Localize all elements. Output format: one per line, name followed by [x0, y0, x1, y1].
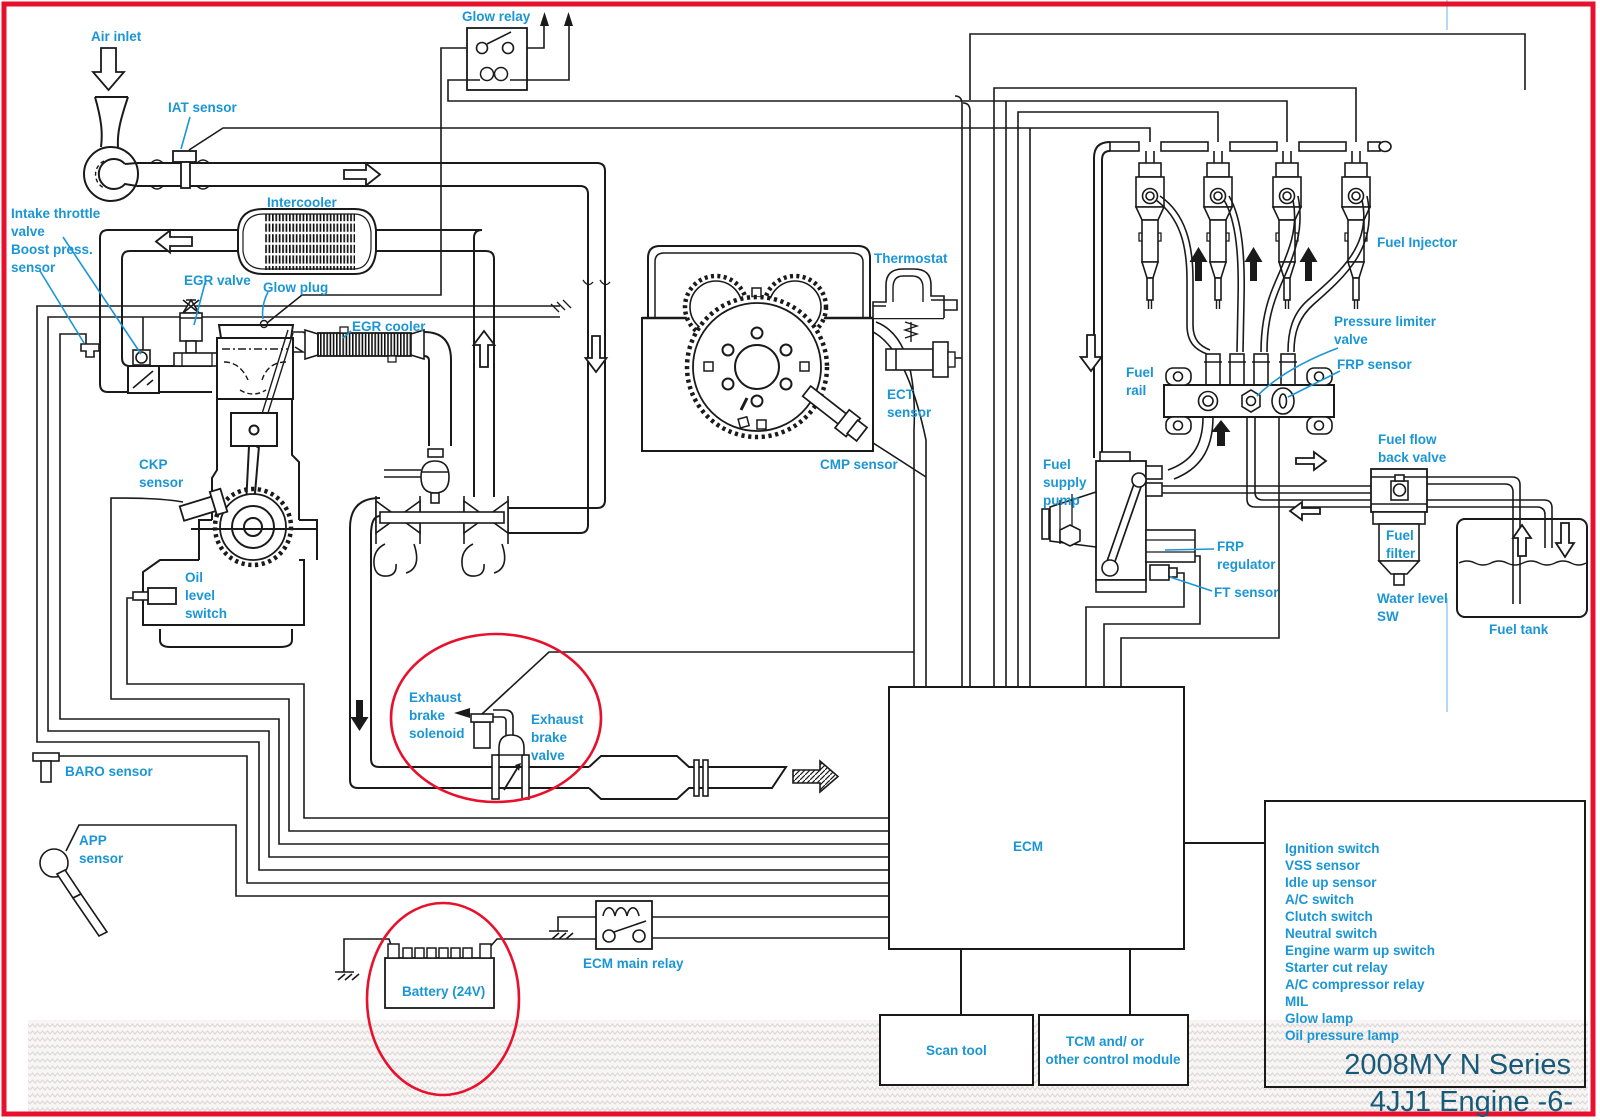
- svg-text:Ignition switch: Ignition switch: [1285, 841, 1380, 856]
- svg-text:valve: valve: [531, 748, 565, 763]
- svg-text:Idle up sensor: Idle up sensor: [1285, 875, 1377, 890]
- svg-text:ECM main relay: ECM main relay: [583, 956, 684, 971]
- svg-text:sensor: sensor: [139, 475, 184, 490]
- svg-text:switch: switch: [185, 606, 227, 621]
- svg-text:Intake throttle: Intake throttle: [11, 206, 101, 221]
- svg-text:ECM: ECM: [1013, 839, 1043, 854]
- svg-text:Boost press.: Boost press.: [11, 242, 93, 257]
- svg-text:Fuel: Fuel: [1126, 365, 1154, 380]
- svg-text:FT sensor: FT sensor: [1214, 585, 1279, 600]
- svg-text:brake: brake: [409, 708, 446, 723]
- svg-text:MIL: MIL: [1285, 994, 1308, 1009]
- svg-text:Starter cut relay: Starter cut relay: [1285, 960, 1388, 975]
- svg-text:Clutch switch: Clutch switch: [1285, 909, 1373, 924]
- svg-text:Engine warm up switch: Engine warm up switch: [1285, 943, 1435, 958]
- svg-text:solenoid: solenoid: [409, 726, 465, 741]
- svg-text:other control module: other control module: [1046, 1052, 1181, 1067]
- svg-text:sensor: sensor: [887, 405, 932, 420]
- svg-text:Oil: Oil: [185, 570, 203, 585]
- svg-text:Fuel flow: Fuel flow: [1378, 432, 1437, 447]
- svg-text:Water level: Water level: [1377, 591, 1448, 606]
- svg-text:valve: valve: [11, 224, 45, 239]
- svg-text:2008MY N Series: 2008MY N Series: [1344, 1049, 1571, 1081]
- svg-text:Battery (24V): Battery (24V): [402, 984, 485, 999]
- svg-text:Thermostat: Thermostat: [874, 251, 948, 266]
- svg-text:supply: supply: [1043, 475, 1087, 490]
- svg-text:APP: APP: [79, 833, 107, 848]
- svg-text:sensor: sensor: [79, 851, 124, 866]
- svg-text:A/C switch: A/C switch: [1285, 892, 1354, 907]
- svg-text:sensor: sensor: [11, 260, 56, 275]
- svg-text:Pressure limiter: Pressure limiter: [1334, 314, 1437, 329]
- svg-text:rail: rail: [1126, 383, 1146, 398]
- svg-text:A/C compressor relay: A/C compressor relay: [1285, 977, 1425, 992]
- svg-text:regulator: regulator: [1217, 557, 1276, 572]
- svg-text:back valve: back valve: [1378, 450, 1447, 465]
- svg-text:pump: pump: [1043, 493, 1080, 508]
- svg-text:CMP sensor: CMP sensor: [820, 457, 899, 472]
- svg-text:EGR cooler: EGR cooler: [352, 319, 426, 334]
- svg-text:Oil pressure lamp: Oil pressure lamp: [1285, 1028, 1399, 1043]
- svg-text:4JJ1 Engine -6-: 4JJ1 Engine -6-: [1370, 1086, 1573, 1118]
- svg-text:Fuel: Fuel: [1043, 457, 1071, 472]
- svg-text:Neutral switch: Neutral switch: [1285, 926, 1377, 941]
- svg-text:EGR valve: EGR valve: [184, 273, 251, 288]
- svg-text:TCM and/ or: TCM and/ or: [1066, 1034, 1145, 1049]
- svg-text:BARO sensor: BARO sensor: [65, 764, 154, 779]
- svg-text:Glow relay: Glow relay: [462, 9, 531, 24]
- svg-text:level: level: [185, 588, 215, 603]
- svg-text:Scan tool: Scan tool: [926, 1043, 987, 1058]
- svg-text:valve: valve: [1334, 332, 1368, 347]
- svg-text:FRP: FRP: [1217, 539, 1244, 554]
- svg-text:Fuel Injector: Fuel Injector: [1377, 235, 1458, 250]
- svg-text:Exhaust: Exhaust: [531, 712, 584, 727]
- svg-text:ECT: ECT: [887, 387, 915, 402]
- svg-text:CKP: CKP: [139, 457, 168, 472]
- svg-text:IAT sensor: IAT sensor: [168, 100, 238, 115]
- svg-text:Glow plug: Glow plug: [263, 280, 328, 295]
- svg-text:Fuel tank: Fuel tank: [1489, 622, 1549, 637]
- svg-text:FRP sensor: FRP sensor: [1337, 357, 1413, 372]
- svg-text:Intercooler: Intercooler: [267, 195, 338, 210]
- svg-text:SW: SW: [1377, 609, 1399, 624]
- svg-text:VSS sensor: VSS sensor: [1285, 858, 1361, 873]
- svg-text:Fuel: Fuel: [1386, 528, 1414, 543]
- svg-text:Glow lamp: Glow lamp: [1285, 1011, 1353, 1026]
- svg-text:Air inlet: Air inlet: [91, 29, 142, 44]
- svg-text:Exhaust: Exhaust: [409, 690, 462, 705]
- svg-text:brake: brake: [531, 730, 568, 745]
- svg-text:filter: filter: [1386, 546, 1416, 561]
